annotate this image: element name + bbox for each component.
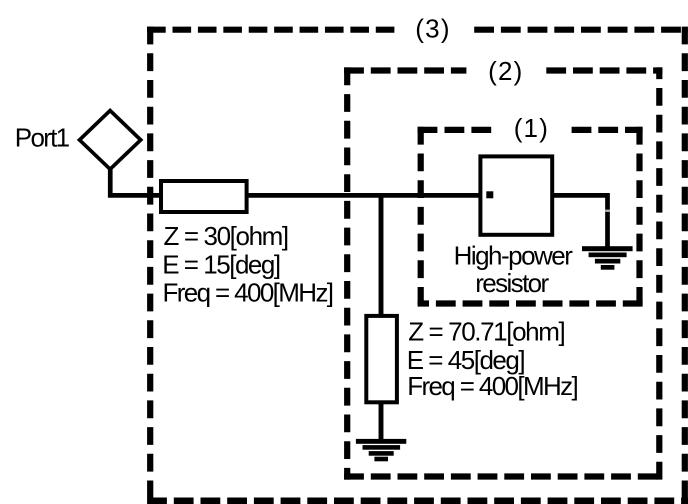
svg-text:(2): (2) xyxy=(488,56,523,86)
enclosure box (3) bottom edge xyxy=(147,497,688,504)
svg-text:Z = 70.71[ohm]: Z = 70.71[ohm] xyxy=(408,317,564,347)
svg-text:resistor: resistor xyxy=(475,268,549,298)
enclosure box (1) right edge xyxy=(636,127,642,307)
enclosure box (2) top-left segment xyxy=(344,67,466,73)
svg-text:Port1: Port1 xyxy=(15,122,70,152)
ground G2 under resistor bar1 xyxy=(582,246,633,251)
ground G2 bar4 xyxy=(601,265,615,270)
resistor R1 pin1 dot xyxy=(486,191,493,198)
enclosure box (3) right edge xyxy=(682,27,688,504)
ground G1 bar4 xyxy=(374,457,388,462)
enclosure box (3) top-right segment xyxy=(474,27,688,33)
enclosure box (3) left edge xyxy=(147,27,153,504)
wire stub branch xyxy=(379,195,384,440)
svg-text:Z = 30[ohm]: Z = 30[ohm] xyxy=(164,221,288,251)
transmission line TL1 xyxy=(161,181,247,212)
enclosure box (1) top-right segment xyxy=(572,127,643,133)
ground G1 bar2 xyxy=(363,445,401,450)
svg-text:E = 15[deg]: E = 15[deg] xyxy=(162,250,280,280)
enclosure box (3) top-left segment xyxy=(147,27,394,33)
port Port1 diamond xyxy=(80,111,141,170)
ground G1 under stub bar1 xyxy=(356,439,406,444)
enclosure box (1) bottom edge xyxy=(418,300,643,306)
ground G2 bar2 xyxy=(589,253,627,258)
transmission line TL2 stub xyxy=(366,316,397,402)
pin junction marker on wire xyxy=(605,210,610,212)
wire port to main line xyxy=(110,167,607,248)
enclosure box (2) top-right segment xyxy=(546,67,662,73)
svg-text:(1): (1) xyxy=(514,113,549,143)
enclosure box (1) left edge xyxy=(418,127,424,307)
svg-text:Freq = 400[MHz]: Freq = 400[MHz] xyxy=(407,371,577,401)
resistor R1 high-power xyxy=(480,156,552,234)
enclosure box (1) top-left segment xyxy=(418,127,492,133)
ground G2 bar3 xyxy=(595,259,620,264)
enclosure box (2) bottom edge xyxy=(344,473,662,479)
enclosure box (2) left edge xyxy=(344,67,350,479)
enclosure box (2) right edge xyxy=(656,67,662,479)
svg-text:High-power: High-power xyxy=(454,240,574,270)
svg-text:Freq = 400[MHz]: Freq = 400[MHz] xyxy=(163,277,333,307)
ground G1 bar3 xyxy=(369,451,394,456)
svg-text:(3): (3) xyxy=(415,13,450,43)
